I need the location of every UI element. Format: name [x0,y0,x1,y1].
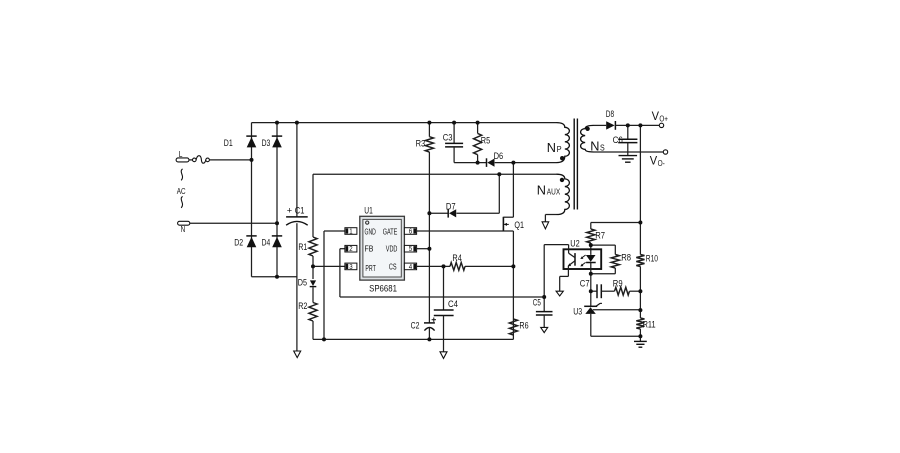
svg-text:+: + [287,206,293,217]
svg-text:D4: D4 [262,238,271,248]
svg-text:4: 4 [409,264,412,271]
svg-text:D2: D2 [234,237,243,247]
svg-text:N: N [181,224,186,234]
svg-text:R9: R9 [613,279,623,289]
svg-text:R11: R11 [643,320,656,330]
svg-text:L: L [179,149,183,159]
svg-text:5: 5 [409,246,412,253]
svg-text:N: N [537,182,546,197]
svg-text:R1: R1 [298,242,307,252]
svg-text:C1: C1 [295,206,305,216]
svg-text:N: N [547,140,556,155]
svg-text:S: S [600,143,605,153]
svg-text:C5: C5 [533,297,541,307]
svg-text:V: V [652,110,660,123]
svg-text:C2: C2 [411,321,420,331]
svg-text:V: V [650,155,658,168]
svg-text:SP6681: SP6681 [369,283,397,294]
svg-text:AUX: AUX [547,187,561,196]
svg-text:R2: R2 [298,301,307,311]
svg-text:P: P [557,144,562,154]
svg-text:D8: D8 [606,109,614,119]
svg-text:C6: C6 [613,135,623,145]
svg-text:N: N [590,139,599,154]
svg-text:6: 6 [409,228,412,235]
svg-text:R5: R5 [481,136,490,146]
svg-text:VDD: VDD [386,244,398,254]
svg-text:D3: D3 [262,138,271,148]
svg-text:R4: R4 [452,253,461,263]
svg-text:AC: AC [177,186,186,196]
svg-text:O+: O+ [659,114,668,123]
svg-text:D7: D7 [446,201,456,211]
svg-text:Q1: Q1 [514,219,524,230]
svg-text:2: 2 [349,246,352,253]
svg-text:PRT: PRT [365,263,376,273]
svg-text:O-: O- [658,159,665,168]
svg-text:3: 3 [349,264,352,271]
svg-text:R6: R6 [519,320,528,330]
svg-text:GND: GND [365,226,376,236]
svg-text:U1: U1 [364,204,373,215]
svg-text:R3: R3 [416,138,426,148]
svg-text:C3: C3 [443,132,453,142]
svg-text:D5: D5 [298,278,307,288]
svg-text:D6: D6 [494,151,504,161]
svg-text:U2: U2 [570,239,579,249]
svg-text:FB: FB [365,244,374,254]
svg-text:R7: R7 [595,230,605,240]
svg-text:CS: CS [389,261,397,271]
svg-text:GATE: GATE [383,226,398,236]
svg-text:D1: D1 [224,138,233,148]
svg-text:R10: R10 [646,253,658,263]
svg-text:U3: U3 [573,306,582,316]
svg-text:1: 1 [349,228,352,235]
svg-text:C7: C7 [580,278,590,288]
svg-text:C4: C4 [448,299,458,309]
svg-text:R8: R8 [621,252,631,262]
